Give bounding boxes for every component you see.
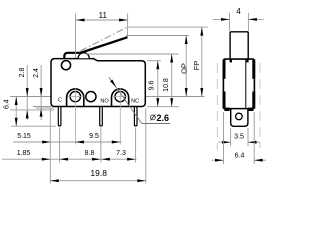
svg-text:OP: OP: [180, 63, 189, 74]
dimension 19.8: [50, 180, 146, 182]
extension lines below front view: [49, 109, 51, 184]
side body: [223, 59, 254, 109]
reference line B2: [10, 109, 54, 111]
phantom dash line left of side view: [216, 63, 218, 150]
leader line phi 2.6: [109, 77, 142, 123]
hole centre cross marks: [68, 96, 84, 98]
svg-text:11: 11: [99, 11, 108, 20]
lever arm: [80, 36, 127, 54]
plunger-top reference line (10.8): [86, 53, 179, 55]
svg-text:2.6: 2.6: [157, 113, 170, 123]
dimension 6.4 side: [223, 112, 225, 164]
side body seam line: [245, 60, 247, 108]
dimension 2.8: [26, 65, 28, 120]
dimension FP: [201, 27, 203, 96]
side plunger: [230, 32, 248, 60]
body-bottom reference line right: [147, 106, 179, 108]
lever curl (hinge end): [64, 53, 80, 59]
terminal pin 2 (NO): [100, 107, 103, 126]
switch body (front view): [51, 59, 145, 107]
dimension row 5.15 / 9.5: [13, 141, 122, 143]
FP reference line: [128, 26, 208, 28]
OP reference line: [126, 35, 189, 37]
svg-text:9.5: 9.5: [89, 133, 99, 140]
wire: centerline A right (OP/FP datum): [146, 96, 205, 98]
body-bottom reference left: [33, 106, 51, 108]
svg-text:6.4: 6.4: [235, 152, 245, 159]
svg-text:FP: FP: [192, 61, 201, 71]
svg-text:8.8: 8.8: [85, 150, 95, 157]
svg-text:2.4: 2.4: [33, 68, 40, 78]
svg-text:4: 4: [236, 7, 241, 16]
pivot circle: [61, 61, 70, 70]
svg-text:5.15: 5.15: [17, 133, 31, 140]
side body corner bars: [223, 60, 226, 79]
dimension 6.4 left: [15, 97, 17, 127]
svg-text:7.3: 7.3: [116, 150, 126, 157]
dimension OP: [185, 36, 187, 97]
svg-text:NC: NC: [131, 98, 139, 104]
mounting hole left: [70, 91, 80, 101]
dimension 9.6: [157, 61, 159, 107]
svg-text:NO: NO: [100, 98, 109, 104]
reference line B1: [36, 107, 54, 109]
tab hole: [236, 113, 243, 120]
svg-text:19.8: 19.8: [90, 168, 107, 178]
terminal pin 3 (NC): [134, 107, 137, 126]
pin-tip reference line: [11, 125, 56, 127]
lever free position (phantom line): [81, 27, 127, 51]
svg-text:C: C: [58, 97, 62, 103]
middle circle (NO contact): [86, 92, 96, 102]
wire: centerline A left (mounting hole axis): [10, 96, 51, 98]
svg-text:2.8: 2.8: [19, 68, 26, 78]
body-top reference line (9.6): [147, 60, 161, 62]
contact arch NC (right mounting boss): [112, 89, 129, 106]
plunger dome: [78, 53, 89, 59]
dimension 3.5: [230, 128, 232, 146]
dimension row 1.85 / 8.8 / 7.3: [2, 158, 137, 160]
mounting hole right: [115, 91, 125, 101]
dimension 11: [75, 14, 77, 58]
svg-text:3.5: 3.5: [234, 134, 244, 141]
dimension 4: [229, 13, 231, 31]
terminal pin 1 (C): [58, 107, 61, 126]
plunger fillet nubs: [230, 59, 232, 62]
dimension 2.4: [40, 65, 42, 120]
side terminal tab: [231, 109, 248, 127]
svg-text:6.4: 6.4: [3, 99, 10, 109]
side body bottom feet: [224, 108, 229, 111]
svg-text:9.6: 9.6: [149, 81, 156, 91]
svg-text:1.85: 1.85: [17, 150, 31, 157]
phantom dash line right of side view: [259, 63, 261, 148]
contact arch C (left mounting boss): [67, 89, 84, 106]
svg-text:10.8: 10.8: [163, 78, 170, 92]
dimension 10.8: [171, 54, 173, 107]
diameter symbol: [151, 115, 156, 120]
